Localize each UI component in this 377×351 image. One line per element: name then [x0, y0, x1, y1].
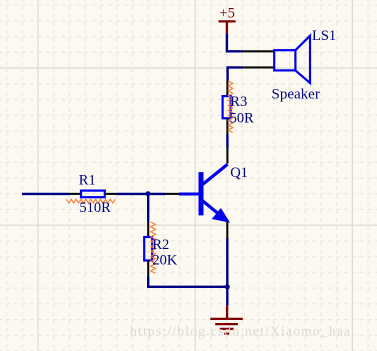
wire R1 to Q1 base [117, 193, 166, 195]
speaker LS1 pin 2 (top) [243, 50, 274, 52]
svg-text:R2: R2 [152, 237, 169, 253]
svg-text:50R: 50R [230, 111, 255, 127]
svg-text:R3: R3 [230, 94, 247, 110]
wire +5 to speaker top pin [227, 34, 243, 52]
wire base node to R2 [147, 194, 149, 222]
svg-text:https://blog.csdn.net/Xiaomo_h: https://blog.csdn.net/Xiaomo_haa [130, 323, 351, 338]
svg-text:LS1: LS1 [312, 28, 336, 44]
svg-text:+5: +5 [220, 6, 235, 22]
wire emitter to ground [226, 238, 228, 306]
wire speaker bottom pin to R3 [228, 67, 243, 80]
transistor Q1 emitter pin [226, 222, 228, 239]
resistor R2 body [144, 237, 152, 261]
resistor R3 pin 2 (top) [226, 81, 228, 97]
wire R3 to Q1 collector [226, 135, 228, 148]
transistor Q1 collector pin [226, 148, 228, 164]
error squiggle on R1 [66, 199, 115, 203]
svg-text:R1: R1 [79, 173, 96, 189]
speaker LS1 pin 1 (bottom) [243, 66, 274, 68]
junction emitter node [225, 284, 230, 289]
wire input to R1 [22, 193, 69, 195]
error squiggle on R2 [151, 222, 156, 273]
resistor R3 pin 1 (bottom) [226, 118, 228, 134]
speaker LS1 body [274, 36, 310, 83]
resistor R1 pin 1 (left) [69, 193, 81, 195]
power port GND [210, 306, 243, 334]
power port +5 [219, 21, 236, 33]
error squiggle on R3 [228, 81, 233, 133]
resistor R2 pin 2 (bottom) [147, 261, 149, 277]
resistor R1 pin 2 (right) [105, 193, 117, 195]
transistor Q1 body [179, 164, 228, 221]
resistor R1 body [81, 191, 105, 198]
svg-text:Q1: Q1 [230, 165, 248, 181]
junction base node [146, 191, 151, 196]
transistor Q1 base pin [165, 193, 180, 195]
svg-text:Speaker: Speaker [272, 86, 320, 102]
resistor R3 body [223, 96, 231, 118]
svg-text:20K: 20K [152, 252, 178, 268]
svg-text:510R: 510R [79, 200, 111, 216]
wire R2 to emitter node [148, 277, 227, 287]
resistor R2 pin 1 (top) [147, 222, 149, 238]
